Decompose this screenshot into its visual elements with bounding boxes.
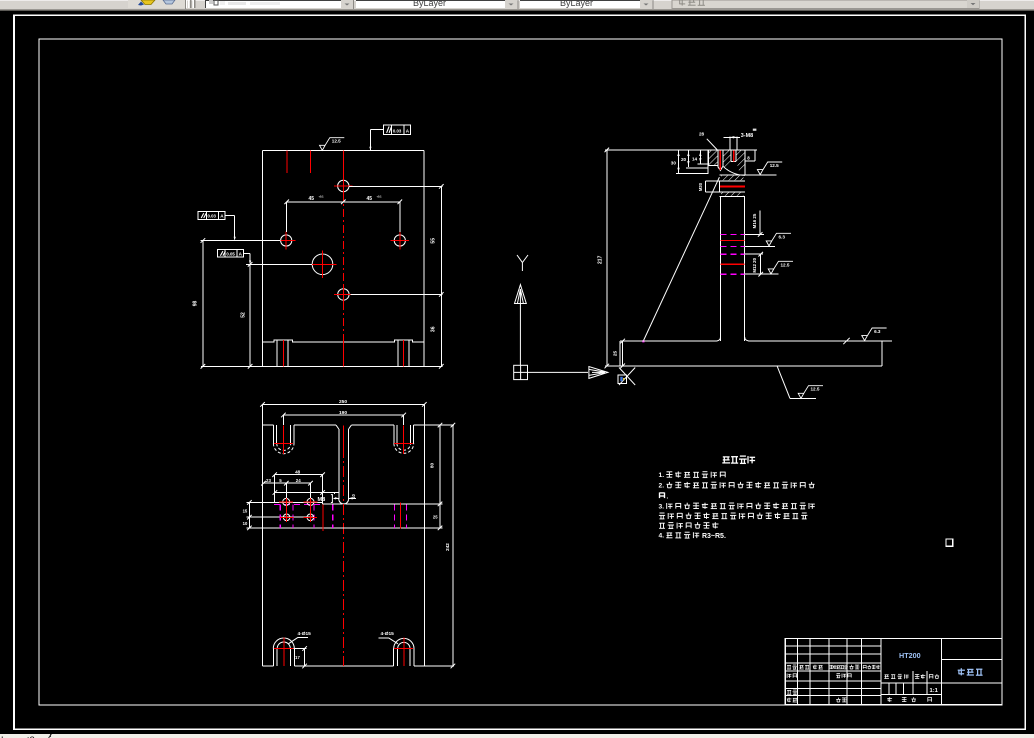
plot style combo (disabled): [672, 0, 979, 8]
flange left dim structure: [678, 150, 680, 174]
flange hatch: [709, 150, 718, 165]
GDT leader: [370, 129, 383, 131]
she ji row: [787, 674, 797, 678]
svg-text:25: 25: [613, 351, 619, 357]
left outer dimension line: [202, 241, 204, 367]
svg-text:10: 10: [351, 494, 356, 499]
top-left U slot: [272, 425, 274, 443]
svg-text:17: 17: [295, 655, 300, 660]
red vertical centerline of part: [342, 150, 344, 177]
red center line of plan: [343, 426, 345, 447]
hidden hole line: [279, 504, 281, 528]
blue layers icon: [163, 0, 175, 4]
red hole axis: [733, 151, 735, 162]
GDT leader: [243, 252, 250, 254]
left table verticals: [797, 638, 799, 704]
UCS icon: [514, 255, 608, 380]
svg-text:80: 80: [429, 463, 434, 469]
surface finish symbol 12.5: [768, 261, 793, 274]
svg-text:217: 217: [598, 255, 604, 264]
rib diagonal line: [643, 177, 719, 341]
hidden (magenta) band/hole lines: [274, 503, 323, 505]
svg-text:12.5: 12.5: [770, 163, 779, 168]
band left dim lines: [248, 502, 250, 528]
bottom edge + extension line: [201, 365, 443, 367]
hole circle at 286.2,240.5: [281, 235, 292, 246]
flange body: [708, 150, 710, 165]
red axis through right hole pair: [310, 497, 312, 522]
svg-text:+0.1: +0.1: [377, 195, 383, 199]
top edge + extension: [605, 149, 757, 151]
disabled combo text: [678, 0, 705, 6]
svg-text:ByLayer: ByLayer: [413, 0, 446, 8]
layer combo icons: [209, 0, 213, 4]
svg-text:14: 14: [692, 156, 698, 161]
right end tick: [843, 338, 849, 344]
slot spacing dim 190: [283, 414, 403, 416]
section flag with X: [619, 368, 635, 386]
slot leaders 4-D15: [289, 638, 298, 644]
bottom layout tab strip: [0, 734, 1034, 738]
gong yi / pi zhun row: [787, 698, 798, 703]
flange underside curve: [723, 166, 745, 175]
hidden hole line: [394, 504, 396, 528]
svg-text:4-Ø15: 4-Ø15: [381, 631, 395, 637]
red crosshair: [309, 263, 337, 265]
svg-text:98: 98: [193, 301, 199, 307]
svg-text:1:1: 1:1: [930, 688, 939, 694]
plan outline top edge with slot openings: [263, 424, 274, 426]
drilled hole 2 in flange: [730, 150, 732, 161]
red hidden hole axes in band: [322, 504, 324, 531]
svg-text:24: 24: [296, 478, 301, 483]
svg-text:12.5: 12.5: [332, 139, 341, 144]
red crosshair: [334, 293, 352, 295]
plan left and right edges: [262, 425, 264, 666]
svg-text:HT200: HT200: [899, 651, 921, 660]
GDT feature control frame: [217, 250, 243, 258]
small dim verticals + rotated labels: [759, 211, 761, 235]
toolbar grip bars: [188, 0, 190, 8]
combo separator: [353, 0, 354, 9]
svg-text:+0.1: +0.1: [319, 195, 325, 199]
surface finish symbol 12.5: [320, 138, 345, 151]
right foot edges: [397, 340, 399, 367]
hidden line: [721, 253, 745, 255]
hidden hole line: [406, 504, 408, 528]
base height dim: [622, 341, 624, 366]
jie duan biao ji / zhi liang / bi li: [884, 674, 908, 678]
svg-text:190: 190: [339, 410, 347, 416]
center slot width dim 10: [334, 497, 339, 499]
svg-text:6.3: 6.3: [779, 234, 786, 239]
inner dimension line: [249, 264, 251, 366]
hidden hole line: [332, 504, 334, 528]
svg-text:242: 242: [445, 543, 450, 551]
svg-text:3-M8: 3-M8: [741, 133, 753, 139]
color combo ByLayer: [356, 0, 517, 8]
red hole axis: [719, 151, 721, 171]
svg-text:1.: 1.: [659, 472, 665, 479]
svg-text:M8: M8: [318, 497, 326, 503]
layer combo box: [205, 0, 353, 8]
svg-text:M12 20: M12 20: [752, 257, 757, 272]
shen he row: [787, 690, 797, 694]
red crosshair: [391, 240, 409, 242]
red thick line in collar: [720, 186, 745, 188]
drilled hole 1 in flange: [717, 150, 719, 167]
svg-text:3.: 3.: [659, 504, 665, 511]
front view body outline: [263, 149, 425, 151]
title: Ji Shu Yao Qiu (bold): [722, 456, 755, 463]
red thread lines: [721, 240, 745, 242]
bottom-left U slot: [272, 649, 274, 667]
overall width dim 250: [263, 403, 425, 405]
svg-text:45: 45: [367, 196, 373, 202]
hidden line: [721, 245, 745, 247]
hole circle at 322.5,264.3: [312, 254, 333, 275]
left foot edges: [276, 340, 278, 367]
svg-text:M30: M30: [698, 182, 703, 191]
svg-text:0.05: 0.05: [226, 251, 235, 256]
hidden line: [721, 233, 745, 235]
surface finish symbol 6.3: [766, 233, 791, 246]
hole circle at 343.4,294.4: [338, 289, 349, 300]
cross rail band lines: [247, 501, 323, 503]
svg-text:36: 36: [431, 326, 437, 332]
red crosshair: [334, 185, 352, 187]
top-right U slot: [393, 425, 395, 443]
svg-text:12.5: 12.5: [781, 262, 790, 267]
red axis through left hole pair: [285, 497, 287, 522]
GDT leader: [225, 215, 235, 217]
svg-text:.: .: [667, 493, 669, 500]
svg-text:12.5: 12.5: [811, 387, 820, 392]
45/45 dimension line: [287, 201, 400, 203]
svg-text:10: 10: [243, 521, 248, 526]
right column lines: [941, 659, 1002, 661]
linetype combo ByLayer: [520, 0, 652, 8]
overall height dim line: [606, 150, 608, 366]
svg-text:2.: 2.: [659, 483, 665, 490]
toolbar button faces: [128, 0, 185, 8]
surface finish symbol 12.5: [757, 162, 782, 175]
surface finish symbol 6.3: [862, 328, 887, 341]
red foot center lines: [282, 340, 284, 367]
svg-text:55: 55: [431, 238, 437, 244]
hidden line: [721, 273, 745, 275]
part name Jia Ju Ti: [958, 668, 983, 675]
yellow layer icon: [141, 0, 155, 5]
surface finish symbol 12.5: [798, 386, 823, 399]
layer combo dropdown button: [341, 0, 353, 8]
right dimension line: [440, 186, 442, 366]
hole circle at 399.8,240.5: [394, 235, 405, 246]
item 3 wrap line 2: [659, 513, 808, 519]
middle column lines: [940, 638, 942, 704]
left table horizontals: [785, 645, 881, 647]
hidden hole line: [313, 504, 315, 528]
red crosshair: [277, 240, 295, 242]
svg-text:48: 48: [295, 469, 301, 474]
header row labels: [787, 665, 797, 669]
toolbar separator: [185, 0, 186, 9]
bottom-right U slot: [393, 649, 395, 667]
bottom leader + surface symbol: [777, 366, 790, 399]
stacked dims above band: [275, 474, 323, 476]
column sides: [720, 196, 722, 341]
svg-text:0.03: 0.03: [208, 214, 217, 219]
slot depth dim 17: [304, 649, 306, 667]
svg-text:250: 250: [339, 399, 347, 405]
svg-text:30: 30: [671, 161, 677, 166]
svg-text:M16 25: M16 25: [752, 213, 757, 228]
right dim lines of plan: [439, 425, 441, 528]
hidden hole line: [292, 504, 294, 528]
base step line with raised foot segments: [263, 340, 425, 342]
item 3 wrap line 3: [659, 522, 718, 528]
svg-text:25: 25: [433, 515, 438, 520]
svg-text:R3~R5.: R3~R5.: [702, 533, 726, 540]
3-M8 dim: [729, 137, 731, 150]
item 2 wrap: [660, 493, 665, 499]
svg-text:45: 45: [309, 196, 315, 202]
svg-text:15: 15: [243, 508, 248, 513]
4 tapped holes (plan): [283, 498, 290, 505]
toolbar strip (top, partially cut): [0, 0, 1034, 9]
plan outline bottom edge with slot openings: [263, 665, 274, 667]
title block outer: [785, 638, 1002, 704]
hole circle at 343.3,186.0: [338, 180, 349, 191]
svg-text:20: 20: [681, 157, 687, 162]
svg-text:ByLayer: ByLayer: [560, 0, 593, 8]
extension verticals: [274, 475, 276, 503]
red tapped hole marks on top edge: [286, 150, 288, 173]
gong zhang di zhang: [887, 697, 892, 702]
GDT feature control frame: [198, 212, 225, 220]
base of section view: [605, 365, 882, 367]
svg-text:52: 52: [240, 312, 246, 318]
svg-text:4.: 4.: [659, 533, 665, 540]
svg-text:28: 28: [699, 132, 705, 137]
svg-text:4-Ø15: 4-Ø15: [298, 631, 312, 637]
extension lines to right: [745, 233, 764, 235]
svg-text:0.03: 0.03: [393, 129, 402, 134]
collar section: [719, 174, 745, 176]
center slot with chamfered mouth: [336, 425, 339, 429]
GDT feature control frame: [384, 125, 411, 134]
svg-text:23: 23: [266, 478, 271, 483]
stray point marker square: [946, 539, 953, 546]
svg-text:6.3: 6.3: [874, 329, 881, 334]
